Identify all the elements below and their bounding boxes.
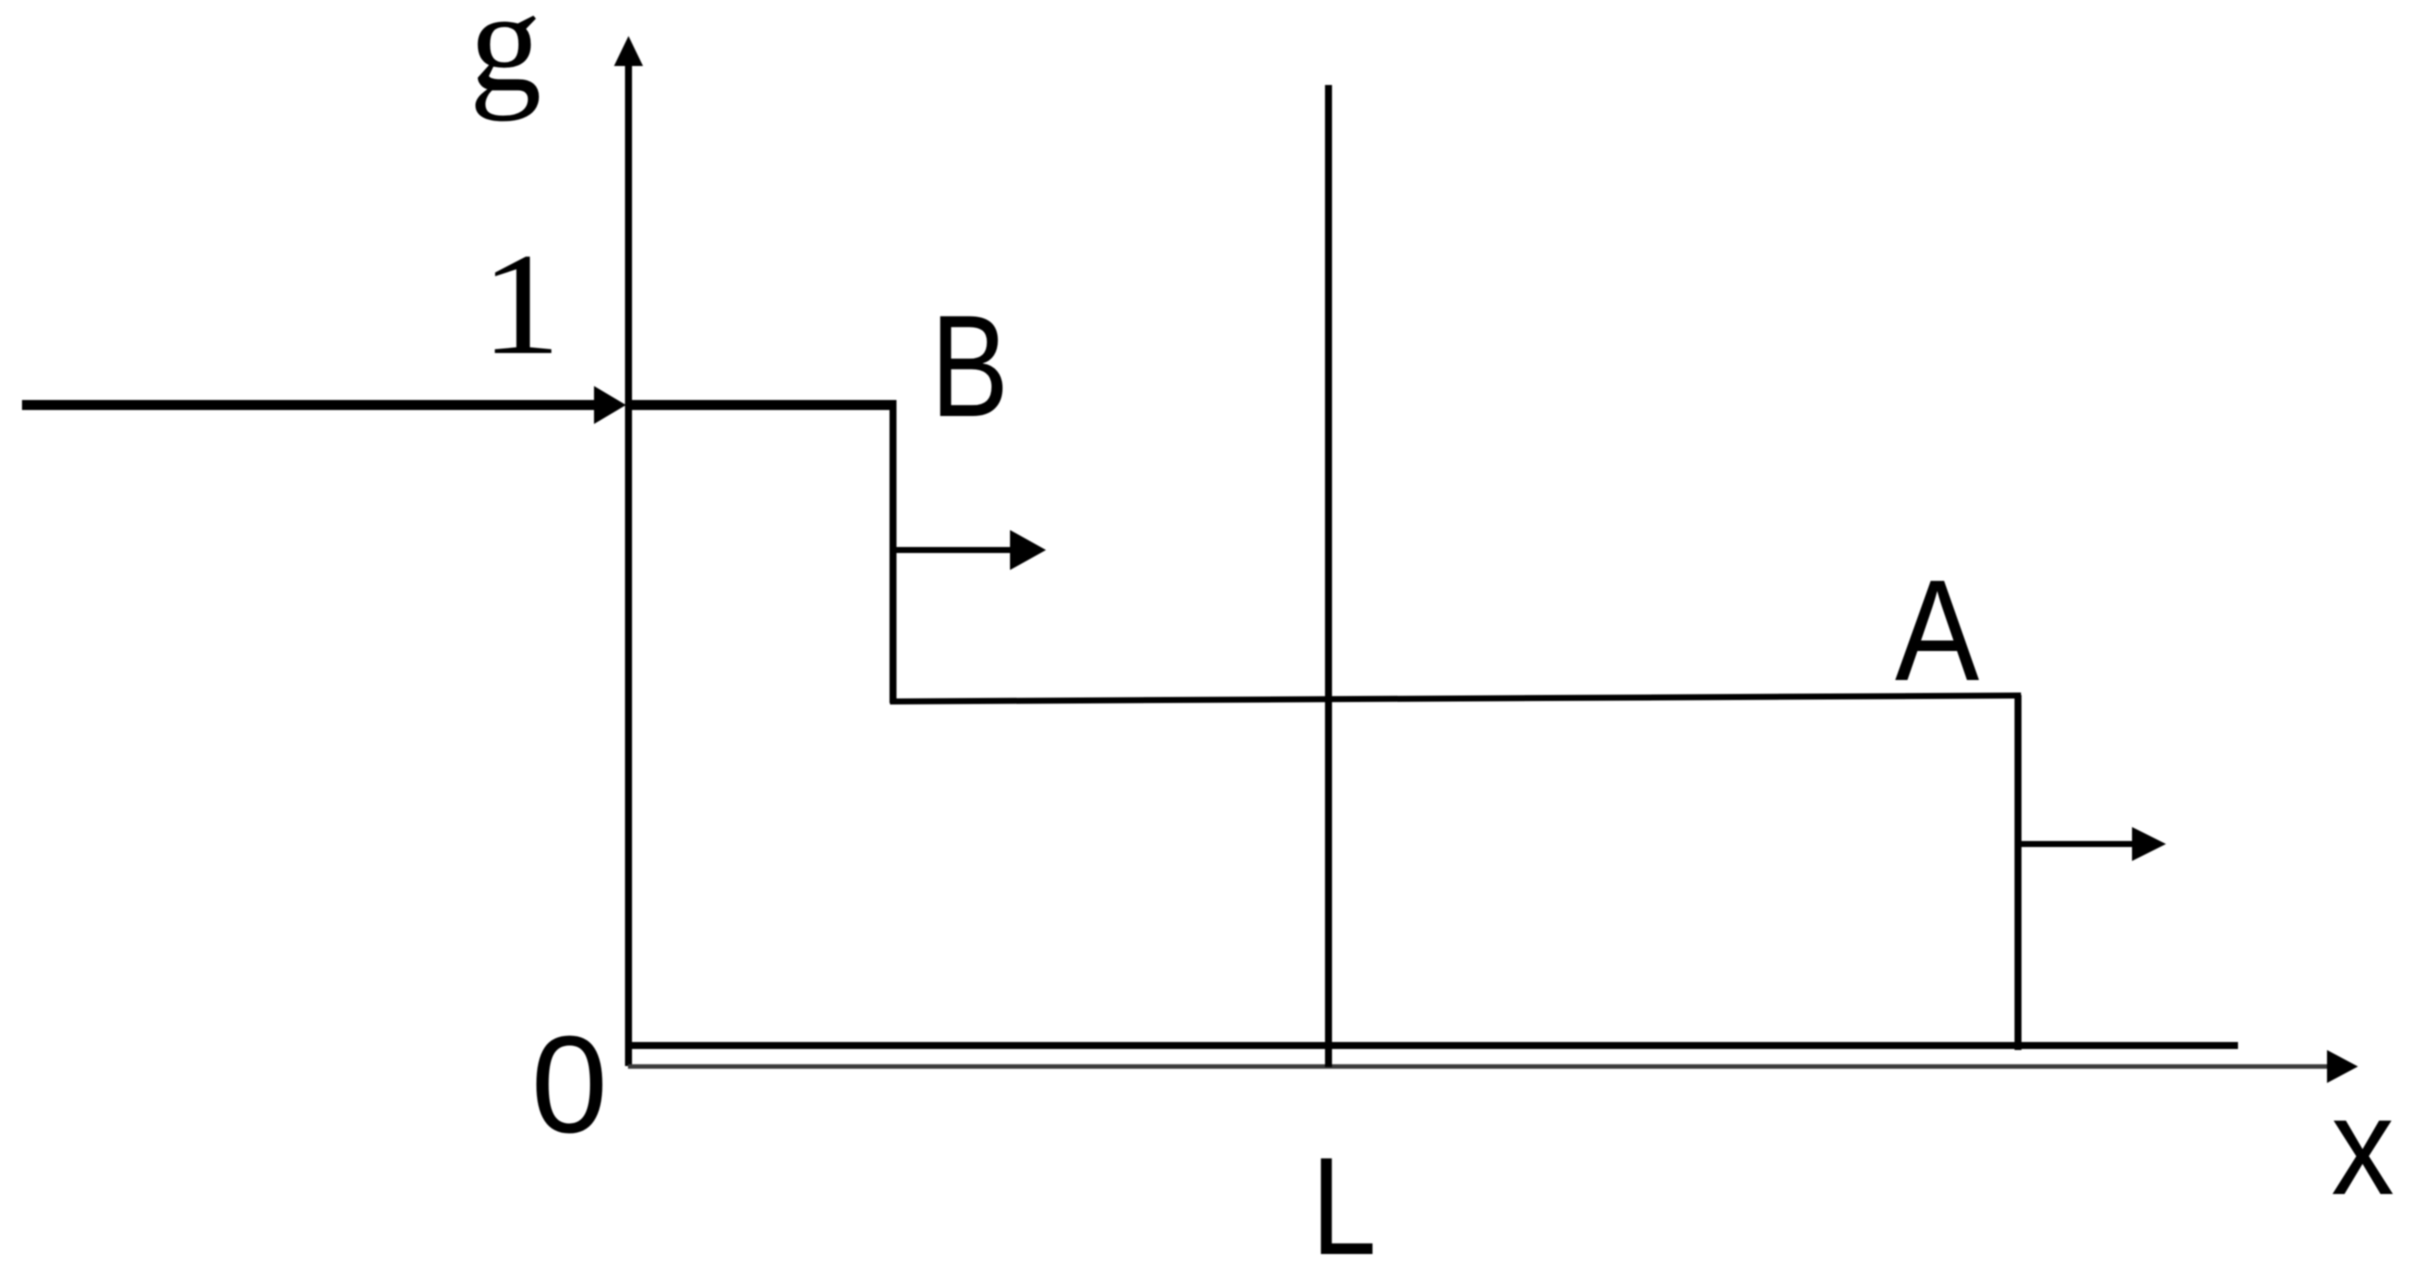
wire: plateau from B to A	[890, 696, 2021, 702]
x-axis (horizontal axis)	[628, 1050, 2358, 1083]
svg-text:B: B	[931, 285, 1009, 447]
wire: g=0 level segment	[629, 1042, 2238, 1049]
svg-text:A: A	[1895, 549, 1980, 711]
wire: g=1 plateau from axis to step B	[628, 400, 897, 410]
g-axis (vertical axis)	[614, 36, 643, 1066]
svg-text:0: 0	[531, 1008, 608, 1162]
vertical line at x=L	[1325, 85, 1332, 1067]
svg-text:x: x	[2331, 1069, 2394, 1224]
wire: drop at A	[2015, 695, 2022, 1050]
velocity arrow of front A	[2018, 827, 2166, 861]
svg-text:1: 1	[481, 224, 561, 386]
wire: step down at B	[890, 400, 897, 703]
svg-text:g: g	[469, 0, 542, 122]
incoming wave arrow at g=1	[22, 386, 626, 424]
svg-text:L: L	[1311, 1130, 1376, 1276]
velocity arrow of front B	[893, 530, 1046, 570]
